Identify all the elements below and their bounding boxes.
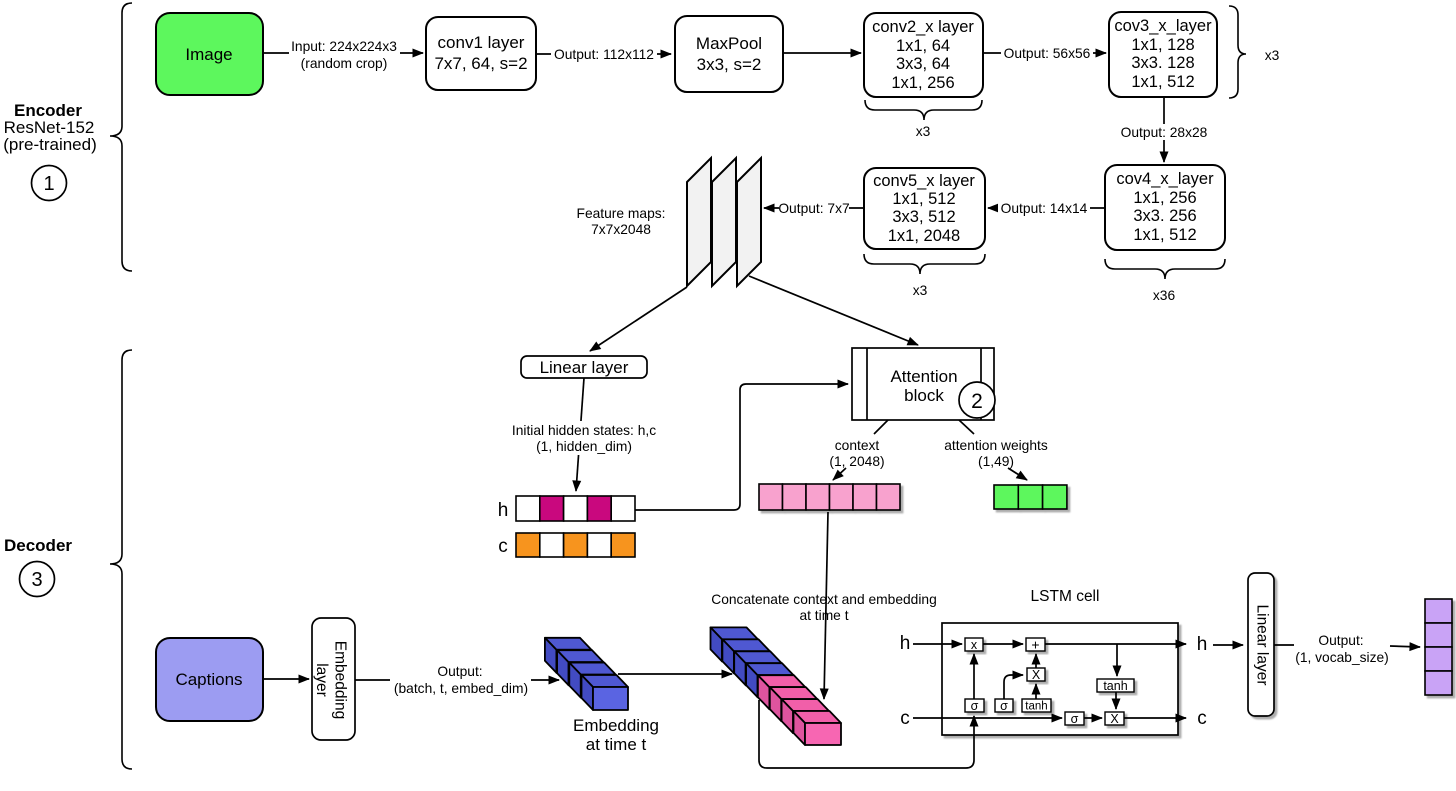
wire conv2_x to cov3_x (983, 52, 1106, 54)
label Input: 224x224x3 (random crop) (289, 38, 400, 71)
svg-text:1: 1 (43, 173, 54, 195)
gate X3 (1105, 712, 1124, 726)
wire MaxPool to conv2_x (783, 52, 861, 54)
svg-text:block: block (904, 386, 944, 405)
node Embedding layer (312, 618, 355, 740)
svg-text:Output:: Output: (1318, 633, 1363, 648)
label Output: (1, vocab_size) (1295, 633, 1389, 665)
node conv2_x layer (864, 13, 983, 97)
encoder brace (110, 3, 132, 271)
wire embedding bar to concat bar (618, 673, 732, 675)
node Captions (156, 638, 263, 721)
leader line to attention weights label (959, 420, 974, 434)
svg-text:Output: 28x28: Output: 28x28 (1121, 125, 1208, 140)
label Output: 112x112 (551, 46, 657, 62)
svg-text:Linear layer: Linear layer (1254, 605, 1271, 686)
svg-text:cov3_x_layer: cov3_x_layer (1114, 17, 1212, 35)
svg-text:(1, 2048): (1, 2048) (829, 454, 884, 469)
wire Captions to Embedding layer (263, 678, 309, 680)
node Linear layer (initial states) (521, 356, 647, 378)
wire h output to Linear layer (1213, 644, 1243, 646)
LSTM cell rectangle (942, 588, 1178, 735)
node conv1 (426, 17, 536, 90)
gate sigma1 (965, 699, 984, 713)
c row cells (498, 533, 635, 557)
svg-text:tanh: tanh (1103, 679, 1127, 693)
svg-text:c: c (900, 708, 910, 729)
svg-text:(pre-trained): (pre-trained) (3, 135, 97, 154)
svg-text:2: 2 (971, 390, 983, 413)
wire feature maps to Attention block (749, 276, 918, 345)
embedding bar (blue cubes) (545, 638, 628, 710)
wire Image to conv1 (264, 52, 423, 54)
svg-text:Linear layer: Linear layer (540, 358, 629, 377)
gate tanh bottom (1022, 699, 1051, 713)
label context (1, 2048) (829, 438, 884, 469)
node Image (156, 13, 263, 95)
wire branch down to tanh (1116, 644, 1118, 676)
wire Linear layer to output label (1274, 644, 1294, 646)
node MaxPool (675, 16, 783, 92)
svg-text:3x3, s=2: 3x3, s=2 (697, 55, 762, 74)
svg-text:x: x (971, 638, 978, 652)
attention weights row (green cells) (994, 485, 1067, 509)
label Output: 28x28 (1118, 124, 1211, 140)
gate tanh right (1097, 679, 1134, 693)
svg-text:Output:: Output: (437, 664, 482, 679)
gate x1 (965, 638, 983, 652)
wire X3 to c output (1124, 717, 1186, 719)
svg-text:σ: σ (971, 699, 979, 713)
label Output: 56x56 (1001, 45, 1093, 61)
brace x3 right of cov3_x (1229, 6, 1280, 98)
wire X2 to plus (1035, 654, 1037, 668)
svg-text:X: X (1110, 712, 1119, 726)
svg-text:h: h (498, 500, 509, 521)
wire x1 to plus (983, 643, 1023, 645)
label Embedding at time t (573, 716, 659, 754)
svg-text:attention weights: attention weights (944, 438, 1048, 453)
svg-text:conv2_x layer: conv2_x layer (872, 18, 974, 36)
svg-text:c: c (1197, 708, 1207, 729)
arrow context label to context row (833, 468, 846, 480)
svg-text:cov4_x_layer: cov4_x_layer (1116, 170, 1214, 188)
svg-text:X: X (1032, 668, 1041, 682)
wire conv5_x to feature maps (764, 207, 864, 209)
svg-text:Concatenate context and embedd: Concatenate context and embedding (711, 592, 937, 607)
svg-text:(random crop): (random crop) (301, 56, 388, 71)
svg-text:1x1, 512: 1x1, 512 (1133, 226, 1196, 244)
brace x3 under conv2_x (865, 100, 982, 139)
svg-text:(batch, t, embed_dim): (batch, t, embed_dim) (394, 681, 528, 696)
node Attention block (852, 348, 994, 420)
leader line to context label (874, 420, 888, 434)
svg-text:7x7x2048: 7x7x2048 (591, 222, 651, 237)
svg-text:x36: x36 (1153, 288, 1176, 303)
svg-text:1x1, 256: 1x1, 256 (1133, 189, 1196, 207)
svg-text:σ: σ (1071, 712, 1079, 726)
svg-text:h: h (900, 633, 911, 654)
wire plus to h output (1045, 643, 1186, 645)
gate X2 (1027, 668, 1045, 682)
concat bar (blue and pink cubes) (711, 627, 842, 745)
svg-text:1x1, 512: 1x1, 512 (1131, 73, 1194, 91)
svg-text:layer: layer (313, 663, 330, 697)
svg-text:3: 3 (31, 569, 42, 591)
svg-text:7x7, 64, s=2: 7x7, 64, s=2 (434, 54, 527, 73)
svg-text:conv5_x layer: conv5_x layer (873, 172, 975, 190)
wire concat bar to LSTM input (759, 700, 974, 768)
svg-text:1x1, 128: 1x1, 128 (1131, 36, 1194, 54)
wire conv1 to MaxPool (536, 53, 671, 55)
wire Linear layer to h row (576, 378, 584, 491)
wire cov4_x to conv5_x (988, 207, 1105, 209)
svg-text:Captions: Captions (175, 670, 242, 689)
svg-text:1x1, 2048: 1x1, 2048 (888, 227, 960, 245)
svg-text:σ: σ (1000, 699, 1008, 713)
svg-text:MaxPool: MaxPool (696, 34, 762, 53)
circled number 3 (20, 562, 55, 597)
brace x36 under cov4_x (1105, 259, 1225, 303)
svg-text:3x3, 512: 3x3, 512 (892, 208, 955, 226)
circled number 2 (959, 382, 995, 418)
svg-text:1x1, 64: 1x1, 64 (896, 37, 950, 55)
gate sigma2 (995, 699, 1013, 713)
label Feature maps: 7x7x2048 (577, 206, 666, 237)
gate sigma3 (1065, 712, 1084, 726)
svg-text:Output: 14x14: Output: 14x14 (1001, 201, 1088, 216)
wire tanh bottom to X2 (1035, 684, 1037, 699)
label attention weights (1,49) (944, 438, 1048, 469)
wire c input to sigma3 (913, 717, 1062, 719)
svg-text:Initial hidden states: h,c: Initial hidden states: h,c (512, 423, 656, 438)
svg-text:Output: 56x56: Output: 56x56 (1004, 46, 1091, 61)
svg-text:conv1 layer: conv1 layer (438, 33, 525, 52)
svg-text:c: c (498, 536, 508, 557)
decoder brace (110, 350, 132, 769)
svg-text:x3: x3 (916, 124, 931, 139)
svg-text:3x3. 128: 3x3. 128 (1131, 54, 1194, 72)
wire cov3_x down to cov4_x (1163, 97, 1165, 162)
svg-text:(1, vocab_size): (1, vocab_size) (1295, 650, 1389, 665)
svg-text:context: context (835, 438, 880, 453)
arrow output label to output column (1390, 646, 1420, 647)
node conv5_x layer (864, 168, 985, 249)
h row cells (498, 496, 635, 521)
wire sigma2 to X2 (1004, 675, 1023, 699)
svg-text:Output: 7x7: Output: 7x7 (778, 201, 849, 216)
svg-text:Attention: Attention (890, 367, 957, 386)
label Output: 7x7 (778, 200, 849, 216)
svg-text:1x1, 512: 1x1, 512 (892, 190, 955, 208)
svg-text:(1,49): (1,49) (978, 454, 1014, 469)
svg-text:x3: x3 (913, 283, 928, 298)
feature maps panels (687, 158, 761, 286)
wire h row to Attention block (635, 384, 848, 510)
svg-text:LSTM cell: LSTM cell (1031, 588, 1100, 605)
svg-text:(1, hidden_dim): (1, hidden_dim) (536, 439, 632, 454)
context row (pink cells) (759, 484, 900, 510)
gate plus (1026, 637, 1045, 653)
wire sigma3 to X3 (1084, 717, 1102, 719)
node cov3_x_layer (1109, 12, 1217, 97)
wire feature maps to Linear layer (590, 287, 687, 351)
svg-text:Output: 112x112: Output: 112x112 (554, 47, 654, 62)
svg-text:1x1, 256: 1x1, 256 (891, 74, 954, 92)
svg-text:Feature maps:: Feature maps: (577, 206, 666, 221)
output column (purple cells) (1425, 599, 1452, 695)
label Initial hidden states: h,c (1, hidden_dim) (506, 421, 663, 455)
svg-text:tanh: tanh (1025, 701, 1047, 713)
node Linear layer vertical (1248, 573, 1274, 716)
brace x3 under conv5_x (864, 254, 985, 298)
arrow attention weights label to green row (1008, 468, 1027, 480)
svg-text:at time t: at time t (799, 608, 848, 623)
wire tanh to X3 (1115, 692, 1117, 709)
svg-text:3x3. 256: 3x3. 256 (1133, 207, 1196, 225)
svg-text:at time t: at time t (586, 735, 647, 754)
svg-text:x3: x3 (1265, 48, 1280, 63)
circled number 1 (32, 166, 67, 201)
wire context row down to concat bar (824, 512, 828, 699)
svg-text:Embedding: Embedding (332, 641, 349, 719)
label Concatenate context and embedding at time t (711, 592, 937, 623)
label Output: 14x14 (998, 200, 1090, 216)
wire Embedding layer to embedding bar (355, 679, 559, 681)
node cov4_x_layer (1105, 165, 1225, 250)
svg-text:Embedding: Embedding (573, 716, 659, 735)
label Encoder ResNet-152 (pre-trained) (3, 101, 97, 154)
wire h input to gate x1 (913, 643, 962, 645)
svg-text:+: + (1031, 637, 1039, 653)
svg-text:3x3, 64: 3x3, 64 (896, 55, 950, 73)
wire sigma1 to x1 (973, 654, 975, 699)
svg-text:h: h (1197, 634, 1208, 655)
svg-text:Input: 224x224x3: Input: 224x224x3 (291, 39, 397, 54)
svg-text:Image: Image (185, 45, 232, 64)
label Output: (batch, t, embed_dim) (390, 663, 531, 697)
svg-text:Decoder: Decoder (4, 536, 72, 555)
